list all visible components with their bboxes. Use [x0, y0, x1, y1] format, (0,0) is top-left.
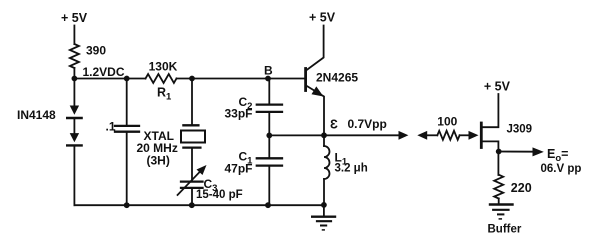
- svg-text:+ 5V: + 5V: [484, 80, 511, 94]
- ground (main): [323, 205, 325, 217]
- wire: +5V to resistor 390: [73, 26, 75, 45]
- wire: 100 to gate with arrow: [460, 134, 470, 136]
- wire: C2 to junction: [268, 112, 270, 135]
- svg-text:Buffer: Buffer: [488, 224, 522, 236]
- node: .1 cap top junction: [124, 76, 130, 82]
- wire: crystal to C3: [191, 148, 193, 181]
- capacitor C2: [257, 103, 282, 105]
- diode D2 IN4148: [73, 118, 75, 133]
- svg-text:J309: J309: [507, 124, 533, 136]
- inductor L1: [323, 135, 325, 146]
- transistor emitter lead with arrow: [306, 86, 324, 136]
- svg-text:Ɛ: Ɛ: [330, 118, 338, 132]
- node: source output junction: [496, 149, 502, 155]
- transistor Q1 2N4265 base bar: [304, 69, 307, 91]
- resistor 100: [437, 131, 459, 140]
- svg-text:390: 390: [86, 44, 106, 58]
- JFET source lead: [482, 141, 498, 175]
- svg-text:1.2VDC: 1.2VDC: [83, 65, 125, 79]
- node: left top rail junction: [72, 76, 78, 82]
- node: bottom crystal junction: [189, 202, 195, 208]
- svg-text:.1: .1: [106, 120, 116, 134]
- JFET drain lead: [482, 94, 498, 127]
- capacitor .1: [126, 79, 128, 125]
- capacitor C1: [257, 157, 282, 159]
- node: bottom .1 junction: [124, 202, 130, 208]
- node E: [321, 132, 327, 138]
- svg-text:+ 5V: + 5V: [61, 11, 88, 25]
- svg-text:B: B: [264, 64, 273, 78]
- svg-text:15-40 pF: 15-40 pF: [196, 189, 243, 201]
- node B: [265, 76, 271, 82]
- svg-text:(3H): (3H): [147, 154, 170, 168]
- svg-text:06.V pp: 06.V pp: [541, 163, 582, 175]
- svg-text:2N4265: 2N4265: [316, 71, 358, 85]
- svg-text:3.2 μh: 3.2 μh: [335, 163, 368, 175]
- wire: 390 to top rail node: [73, 68, 75, 79]
- node: C2/C1 junction: [266, 133, 272, 139]
- wire: E line with right arrow: [269, 134, 400, 136]
- JFET J309 gate bar: [480, 123, 483, 148]
- wire: junction to C1: [268, 135, 270, 157]
- crystal XTAL 20 MHz: [183, 124, 198, 126]
- svg-text:33pF: 33pF: [225, 107, 253, 121]
- svg-text:IN4148: IN4148: [17, 108, 56, 122]
- svg-text:100: 100: [437, 115, 457, 129]
- diode D1 IN4148: [73, 79, 75, 106]
- svg-text:220: 220: [511, 181, 532, 195]
- node: bottom ground junction: [321, 202, 327, 208]
- svg-text:47pF: 47pF: [225, 162, 253, 176]
- svg-text:0.7Vpp: 0.7Vpp: [348, 117, 387, 131]
- transistor collector lead: [306, 26, 324, 71]
- wire: node B down to C2: [268, 79, 270, 104]
- resistor 390: [70, 44, 79, 68]
- svg-text:130K: 130K: [149, 60, 178, 74]
- wire: coupling arrow (left-pointing): [417, 131, 427, 140]
- wire: diodes to bottom rail: [73, 145, 75, 205]
- resistor 220: [494, 175, 503, 199]
- resistor R1 130K: [146, 74, 177, 83]
- node: bottom C1 junction: [265, 202, 271, 208]
- wire: C1 to bottom rail: [268, 166, 270, 206]
- capacitor C3 (variable): [181, 180, 203, 182]
- wire: bottom rail: [74, 204, 324, 206]
- svg-text:+ 5V: + 5V: [309, 11, 336, 25]
- wire: C3 to bottom rail: [191, 188, 193, 205]
- wire: output arrow: [499, 151, 534, 153]
- wire: node to crystal: [191, 79, 193, 125]
- ground (buffer): [498, 199, 500, 205]
- wire: top rail left segment: [74, 78, 145, 80]
- wire: top rail mid segment: [177, 78, 306, 80]
- node: crystal branch top: [189, 76, 195, 82]
